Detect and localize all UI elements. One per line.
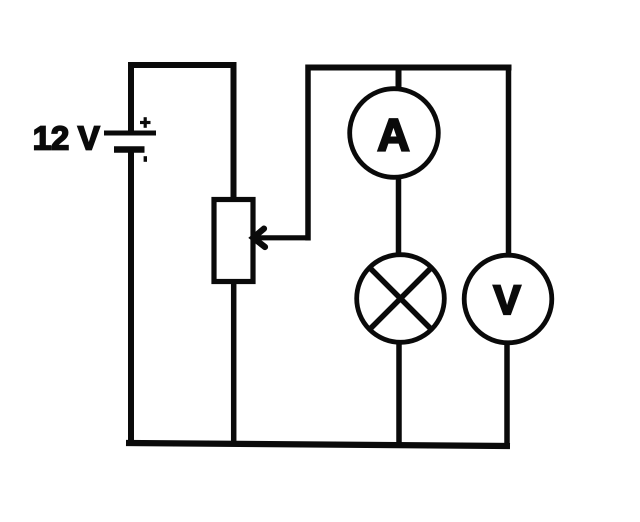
wire bottom horizontal <box>126 443 510 446</box>
battery minus sign <box>144 156 147 162</box>
svg-text:V: V <box>493 277 521 323</box>
wire top to ammeter <box>396 68 402 91</box>
wire rheostat bottom down <box>231 281 237 446</box>
rheostat R1 body <box>214 200 253 282</box>
wire battery positive terminal up <box>128 63 134 134</box>
wire top right horizontal <box>306 65 512 71</box>
lamp L1 circle <box>357 255 445 343</box>
lamp cross stroke 2 <box>369 267 433 331</box>
wire wiper up to top <box>305 65 311 241</box>
rheostat wiper arrow wire <box>256 235 310 240</box>
battery B1 negative plate <box>114 146 145 153</box>
wire top right corner down to voltmeter <box>506 65 512 257</box>
ammeter A1 circle <box>350 89 439 178</box>
battery plus sign <box>140 117 151 128</box>
battery B1 positive plate <box>104 131 156 136</box>
rheostat wiper arrowhead <box>253 229 265 247</box>
wire down to rheostat top <box>231 62 237 200</box>
wire lamp bottom down <box>396 341 402 446</box>
svg-text:12 V: 12 V <box>33 119 100 156</box>
wire top left horizontal <box>128 62 236 68</box>
lamp cross stroke 1 <box>369 267 433 331</box>
wire ammeter to lamp <box>396 176 402 256</box>
voltmeter V1 circle <box>464 255 552 343</box>
svg-text:A: A <box>377 110 410 161</box>
wire voltmeter bottom down <box>504 342 510 448</box>
wire battery negative terminal down <box>128 149 134 445</box>
